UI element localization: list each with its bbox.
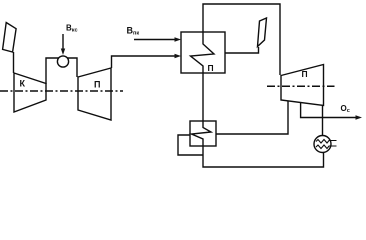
fuel arrow to combustor [62,34,64,51]
gas turbine P1 [78,68,111,120]
boiler heating coil zigzag [191,32,215,73]
fuel line Vpk [134,39,178,41]
svg-text:П: П [208,63,214,73]
steam boiler box P [181,32,225,73]
svg-text:К: К [20,79,26,89]
combustion chamber circle [57,56,68,67]
heater box [190,121,216,146]
heater coil zigzag [192,121,212,146]
wire combustor bridge [46,58,77,84]
wire steam line boiler to steam turbine [203,4,280,75]
shaft axis right (dash-dot) [267,85,335,87]
wire turbine exhaust to condenser [322,106,324,136]
svg-text:Ос: Ос [341,104,350,114]
wire intake duct [13,52,15,73]
wire flue gas to stack [225,47,259,53]
svg-text:П: П [94,80,100,90]
stack parallelogram [258,18,267,47]
shaft axis left (dash-dot) [0,90,123,92]
svg-text:Впк: Впк [127,26,140,37]
wire GT exhaust to boiler [112,56,178,68]
wire extraction step Os [301,103,359,118]
svg-text:Вкс: Вкс [66,24,78,34]
wire gas downcomer boiler to heater [202,73,204,121]
condenser cooling waves [316,140,337,144]
compressor K [14,73,46,112]
air intake parallelogram [3,23,17,53]
svg-text:П: П [302,69,308,79]
wire recirculation loop [178,135,203,155]
wire extraction steam to heater [216,101,288,134]
steam turbine P2 [281,65,324,106]
condenser circle [314,136,331,153]
wire condensate line to heater [203,146,324,167]
